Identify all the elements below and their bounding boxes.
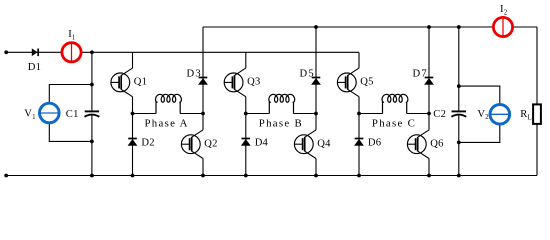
wire V1 branch (49, 85, 92, 142)
diode D4 (242, 139, 251, 146)
node phase B left (244, 112, 248, 116)
wire phase A node right (180, 113, 203, 115)
wire phase C left leg (358, 97, 360, 176)
junction C1 bottom (90, 174, 94, 178)
svg-text:Q3: Q3 (247, 77, 260, 88)
wire phase C right leg (428, 27, 430, 130)
svg-text:D3: D3 (187, 68, 202, 79)
svg-text:D6: D6 (368, 137, 381, 148)
inductor L phase A (156, 94, 182, 113)
junction C2 top (457, 25, 461, 29)
capacitor C2 (451, 111, 466, 116)
wire phase C node left (359, 113, 383, 115)
node input top terminal (4, 50, 8, 54)
wire top output rail (203, 26, 537, 28)
wire bottom rail (6, 175, 537, 177)
transistor Q2 (181, 130, 203, 159)
junction Q6 bottom (427, 174, 431, 178)
junction D5 top (314, 25, 318, 29)
wire C1 leg lower (91, 115, 93, 176)
voltage source V2 (490, 105, 510, 125)
junction V2 bottom (457, 141, 461, 145)
junction D6 bottom (357, 174, 361, 178)
diode D5 (312, 78, 321, 85)
wire Q4 source (315, 159, 317, 176)
junction Q4 bottom (314, 174, 318, 178)
svg-text:D5: D5 (300, 68, 315, 79)
node phase C right (427, 112, 431, 116)
svg-text:D7: D7 (413, 68, 428, 79)
wire phase B left leg (245, 97, 247, 176)
svg-text:Phase C: Phase C (372, 118, 416, 130)
transistor Q3 (224, 68, 246, 97)
wire top input rail (6, 51, 359, 53)
wire phase A right leg (202, 27, 204, 130)
transistor Q1 (111, 68, 133, 97)
svg-text:Q6: Q6 (430, 138, 443, 149)
current source I2 (493, 17, 512, 36)
node phase B right (314, 112, 318, 116)
svg-text:D4: D4 (255, 137, 269, 148)
svg-text:Q4: Q4 (317, 138, 331, 149)
wire phase A node left (133, 113, 157, 115)
voltage source V1 (40, 103, 60, 123)
transistor Q4 (294, 130, 316, 159)
svg-text:Phase A: Phase A (144, 118, 188, 130)
node input bottom terminal (4, 174, 8, 178)
wire C2 leg lower (458, 115, 460, 176)
diode D6 (355, 139, 364, 146)
wire phase A left leg (132, 97, 134, 176)
wire phase B node left (246, 113, 269, 115)
junction D2 bottom (131, 174, 135, 178)
wire C2 leg upper (458, 27, 460, 110)
junction V1 bottom (90, 140, 94, 144)
node phase C left (357, 112, 361, 116)
wire phase C node right (407, 113, 429, 115)
wire phase B node right (294, 113, 317, 115)
diode D3 (199, 78, 208, 85)
svg-text:C2: C2 (433, 109, 446, 120)
wire V2 branch (459, 86, 500, 142)
junction V1 top (90, 83, 94, 87)
diode D1 (32, 49, 38, 57)
svg-text:Q5: Q5 (360, 77, 373, 88)
svg-text:C1: C1 (66, 109, 79, 120)
wire C1 leg upper (91, 52, 93, 110)
node phase A left (131, 112, 135, 116)
wire Q2 source (202, 159, 204, 176)
svg-text:Q2: Q2 (204, 138, 217, 149)
wire load leg upper (536, 27, 538, 104)
node phase A right (201, 112, 205, 116)
svg-text:D2: D2 (141, 137, 154, 148)
junction D7 top (427, 25, 431, 29)
transistor Q6 (407, 130, 429, 159)
transistor Q5 (337, 68, 359, 97)
resistor RL (533, 104, 541, 124)
current source I1 (62, 43, 81, 62)
svg-text:Q1: Q1 (134, 77, 147, 88)
svg-text:Phase B: Phase B (259, 118, 303, 130)
diode D2 (128, 139, 137, 146)
diode D7 (425, 78, 434, 85)
inductor L phase B (269, 94, 295, 113)
wire Q6 source (428, 159, 430, 176)
svg-text:D1: D1 (28, 62, 41, 73)
junction D4 bottom (244, 174, 248, 178)
capacitor C1 (85, 111, 100, 116)
junction C2 bottom (457, 174, 461, 178)
wire load leg lower (536, 124, 538, 176)
wire phase B right leg (315, 27, 317, 130)
wire Q1 drain (132, 52, 134, 68)
inductor L phase C (382, 94, 408, 113)
junction C1 top (90, 50, 94, 54)
wire Q5 drain (358, 52, 360, 68)
junction Q2 bottom (201, 174, 205, 178)
wire Q3 drain (245, 52, 247, 68)
junction V2 top (457, 84, 461, 88)
